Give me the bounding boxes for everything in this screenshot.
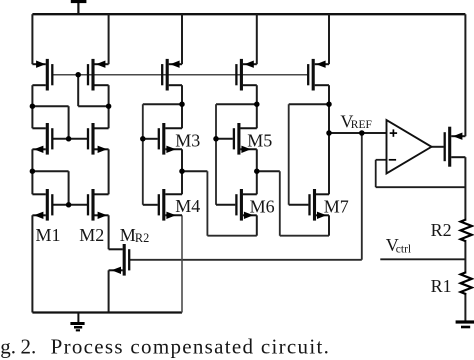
svg-text:M3: M3 [175,130,200,150]
svg-text:M6: M6 [250,196,275,216]
svg-text:R2: R2 [431,220,452,240]
svg-text:R2: R2 [135,231,149,245]
svg-text:M: M [120,225,136,245]
svg-text:M7: M7 [324,196,349,216]
svg-text:M4: M4 [175,196,200,216]
svg-text:M2: M2 [79,225,104,245]
svg-text:R1: R1 [431,276,452,296]
svg-text:REF: REF [351,119,372,131]
svg-text:M5: M5 [247,130,272,150]
svg-text:ctrl: ctrl [396,244,411,256]
svg-text:M1: M1 [36,225,61,245]
svg-text:g.2.Process compensated circui: g.2.Process compensated circuit. [0,334,330,358]
